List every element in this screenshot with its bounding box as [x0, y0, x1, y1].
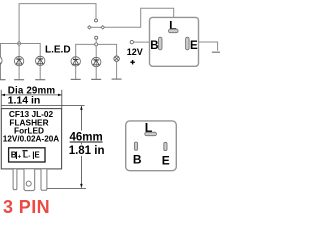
svg-text:12V/0.02A-20A: 12V/0.02A-20A [3, 135, 60, 144]
wire stub LED5 [95, 46, 97, 58]
svg-text:-: - [28, 153, 30, 160]
svg-text:+: + [18, 154, 22, 160]
relay U1 top view body [150, 17, 199, 66]
label plus [130, 60, 134, 64]
switch S1 contact left [88, 26, 91, 29]
LED D5 [92, 57, 101, 66]
switch S1 contact right [101, 26, 104, 29]
switch S1 terminal top [95, 19, 98, 22]
wire LED row left [0, 44, 40, 57]
ground bar lamp [112, 78, 122, 80]
label 1.81 in background [69, 144, 106, 156]
ground bar D4 [71, 78, 81, 80]
terminal 12V circle [130, 40, 133, 43]
svg-text:3 PIN: 3 PIN [3, 197, 50, 217]
pin slot E bottom view [164, 142, 167, 150]
svg-text:E: E [162, 154, 170, 168]
pin slot E top view [186, 37, 190, 50]
svg-text:E: E [190, 40, 198, 52]
wire ground D3 [39, 65, 41, 79]
LED D2 [14, 56, 23, 65]
arrow 46mm bottom [80, 184, 83, 188]
wire ground lamp [116, 61, 118, 79]
pin slot L bottom view [145, 132, 157, 136]
node junction J1 [17, 41, 21, 45]
wire stub LED1 [0, 44, 2, 80]
wire ground D4 [75, 66, 77, 79]
dimension line 46mm [80, 106, 82, 188]
svg-text:L.E.D: L.E.D [45, 45, 71, 56]
wire 12V to relay B [134, 41, 150, 43]
wire stub LED2 [18, 46, 20, 57]
pin slot B bottom view [134, 142, 137, 150]
terminal marking box [9, 148, 45, 162]
arrow 46mm top [80, 106, 83, 110]
extension line 46mm top [1, 105, 84, 107]
extension line 46mm bottom [47, 187, 86, 189]
LED D4 [71, 57, 80, 66]
ground bar D2 [14, 79, 24, 81]
ground bar D3 [35, 79, 45, 81]
lamp X1 [114, 56, 119, 61]
relay side view body [1, 109, 61, 169]
wire switch to relay L [105, 8, 174, 27]
svg-text:1.81 in: 1.81 in [69, 145, 105, 157]
LED D1 [0, 56, 2, 65]
ground bar D1 [0, 79, 6, 81]
wire relay E to ground [199, 42, 218, 51]
wire LED row right [76, 44, 117, 57]
svg-text:12V: 12V [127, 47, 143, 57]
switch S1 lever [91, 26, 102, 28]
wire ground D2 [18, 66, 20, 80]
extension line Dia right [61, 90, 63, 109]
pin 2 hole [26, 181, 31, 186]
wire top bus [19, 4, 96, 43]
label 46mm background [69, 131, 105, 143]
wire ground D5 [95, 67, 97, 80]
relay U1 bottom view body [126, 121, 177, 171]
svg-text:B: B [133, 153, 142, 167]
wire node stub [95, 39, 97, 43]
node junction J2 [95, 43, 98, 46]
pin 3 side view [41, 169, 47, 190]
pin slot B top view [159, 37, 163, 50]
terminal marking text [11, 150, 40, 161]
pin 2 side view [24, 169, 35, 190]
svg-text:1.14 in: 1.14 in [8, 94, 41, 106]
arrow Dia right [58, 94, 62, 97]
switch S1 terminal bottom [95, 36, 98, 39]
underline 46mm [70, 141, 103, 143]
pin slot L top view [169, 29, 179, 33]
ground bar E [212, 51, 220, 53]
dimension line Dia [1, 94, 62, 96]
LED D3 [36, 56, 45, 65]
svg-text:E: E [35, 151, 40, 160]
arrow Dia left [1, 94, 5, 97]
extension line Dia left [0, 90, 2, 109]
svg-text:B: B [150, 40, 158, 52]
ground bar D5 [91, 78, 101, 80]
pin 1 side view [13, 169, 17, 189]
